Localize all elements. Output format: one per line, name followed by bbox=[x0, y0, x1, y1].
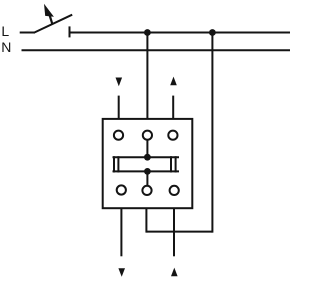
wire from node B down right side bbox=[211, 33, 213, 233]
wire rotor lower pivot to terminal 5 bbox=[146, 171, 148, 185]
pivot dot upper bbox=[144, 154, 151, 161]
junction node A on L bbox=[144, 29, 151, 36]
svg-text:L: L bbox=[1, 23, 9, 39]
switch S1 blade bbox=[34, 15, 73, 33]
wire L line left segment bbox=[20, 32, 35, 34]
wire L line right segment bbox=[70, 32, 291, 34]
direction arrow up (top) bbox=[170, 77, 177, 86]
terminal 3 (top-right) bbox=[168, 131, 177, 140]
switch S1 actuator arrow bbox=[44, 4, 54, 24]
direction arrow up (bottom) bbox=[171, 268, 178, 277]
terminal 6 (bottom-right) bbox=[170, 186, 179, 195]
terminal 5 (bottom-middle) bbox=[142, 186, 151, 195]
switch S1 fixed contact bbox=[69, 26, 71, 37]
wire N line bbox=[22, 49, 291, 51]
terminal 4 (bottom-left) bbox=[117, 185, 126, 194]
terminal 2 (top-middle) bbox=[143, 131, 152, 140]
contact bar right inner bbox=[170, 156, 172, 172]
wire stub bottom-middle terminal bbox=[145, 208, 147, 232]
direction arrow down (top) bbox=[116, 78, 123, 87]
direction arrow down (bottom) bbox=[118, 268, 125, 277]
wire bottom connector run bbox=[146, 231, 212, 233]
contact bar left outer bbox=[113, 156, 115, 172]
pivot dot lower bbox=[144, 168, 151, 175]
wire stub top-left terminal bbox=[118, 96, 120, 119]
terminal 1 (top-left) bbox=[114, 131, 123, 140]
wire stub bottom-left terminal to motor down bbox=[120, 208, 122, 256]
wire terminal 2 to rotor upper pivot bbox=[146, 140, 148, 157]
contact bar left inner bbox=[117, 156, 119, 172]
wire stub bottom-right terminal to motor down bbox=[173, 208, 175, 256]
rotor lower bar bbox=[113, 170, 180, 172]
junction node B on L bbox=[209, 29, 216, 36]
svg-text:N: N bbox=[1, 39, 11, 55]
rotor upper bar bbox=[113, 156, 180, 158]
contact bar right outer bbox=[175, 156, 177, 172]
jalousie switch unit U1 box bbox=[103, 119, 193, 208]
wire from node A down to unit top middle bbox=[146, 33, 148, 119]
wire stub top-right terminal bbox=[172, 96, 174, 119]
